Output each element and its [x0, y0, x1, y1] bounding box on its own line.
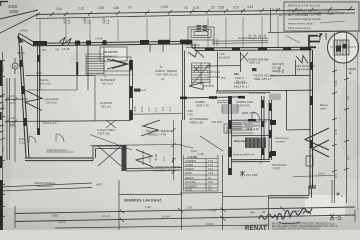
north symbol E	[309, 34, 322, 49]
left edge comb marks	[0, 96, 4, 132]
leader from steps	[186, 40, 200, 48]
room divider y=121	[38, 120, 132, 123]
circled A marker left	[12, 63, 18, 69]
line LA	[0, 183, 92, 187]
line LE	[55, 225, 268, 228]
right outer wall	[310, 47, 313, 188]
entrance dart arrow	[189, 83, 203, 90]
door arc kis lamas	[252, 112, 260, 120]
window blocks top wall right	[205, 47, 311, 51]
vilagito akna label box	[100, 47, 127, 61]
line LB	[119, 194, 181, 196]
stamp text rows	[288, 4, 322, 31]
detail circle	[328, 32, 359, 63]
staircase 1	[86, 47, 131, 75]
door zigzag oltozo	[296, 56, 308, 64]
bottom vertical extension lines	[15, 155, 355, 230]
corner mark top-left of plan	[17, 36, 24, 43]
dark blob wall joint	[102, 40, 107, 45]
line under stamp	[268, 31, 360, 33]
underline terepszint	[46, 151, 74, 153]
top-left corner angled wall	[18, 33, 37, 46]
outside steps top-center nested rects	[188, 27, 214, 40]
second door zigzag center-bottom	[136, 150, 152, 167]
dark hatched terrace	[245, 138, 266, 149]
central vertical line (section)	[181, 120, 183, 197]
top wall right (y~48-50.5)	[192, 47, 312, 50]
line LD	[15, 215, 355, 222]
szarito bottom wall	[231, 159, 270, 161]
wall above WC row	[206, 65, 240, 67]
top dimension line B	[36, 13, 355, 19]
page border right	[357, 32, 359, 210]
dark blocks left of hatch	[270, 120, 276, 125]
small x marks	[106, 120, 116, 128]
big W zigzag left (stairs to cellar)	[25, 90, 42, 111]
vertical number pairs under dim line	[63, 18, 267, 39]
extension lines from dim band to wall	[40, 17, 278, 48]
plus mark right	[336, 192, 340, 196]
dimension numbers top	[56, 5, 345, 17]
small treads 2	[231, 123, 242, 131]
extension at x=270	[270, 8, 272, 32]
window blocks right wall	[310, 62, 313, 148]
rotated dim texts center	[133, 106, 175, 165]
X cross door swing	[98, 146, 121, 166]
inner wall x=262	[262, 96, 265, 160]
staircase 2	[192, 63, 211, 85]
left edge scan border	[0, 60, 3, 230]
staircase 3 small	[222, 105, 238, 113]
dim column center-bottom	[172, 120, 176, 180]
dimension ticks	[36, 7, 352, 17]
window blocks on left wall	[19, 60, 26, 126]
dim rows wc	[217, 101, 231, 103]
center dim line	[90, 145, 182, 146]
corner mark top-left	[0, 1, 8, 6]
top wall left (y~41-44)	[33, 41, 192, 46]
interior walls center	[216, 52, 312, 130]
terrace steps bottom center	[224, 124, 253, 133]
PM stamp blob	[134, 89, 141, 92]
bottom-right step	[268, 186, 316, 198]
door zigzag center-bottom	[141, 120, 160, 136]
signature	[259, 208, 312, 220]
short wall stubs under top wall	[150, 45, 163, 52]
marks below stamp	[320, 33, 326, 40]
small treads furdoszoba	[270, 94, 280, 101]
rows right of steps	[212, 40, 268, 43]
entry door zigzag	[188, 51, 204, 58]
interior small texts (room labels)	[9, 37, 328, 173]
right dimension columns	[332, 33, 349, 203]
door X furdoszoba	[240, 53, 248, 62]
inner-right wall x=270	[269, 100, 272, 160]
bottom-left step walls	[93, 146, 182, 171]
thick wall pier	[122, 145, 127, 171]
hatched block in circle	[330, 40, 356, 55]
bottom-left wall	[25, 158, 93, 161]
left dimension column	[0, 52, 60, 230]
interior wall verticals left block	[40, 44, 88, 91]
small rect below chevrons	[306, 156, 313, 166]
thick center-left wall	[130, 60, 133, 120]
chevrons right (outside steps)	[305, 128, 329, 150]
bottom ticks	[120, 207, 334, 223]
step in top wall	[192, 41, 195, 50]
legend table bottom-center	[184, 155, 219, 191]
lepcsohaz west wall	[38, 42, 40, 135]
dim line mid	[131, 113, 182, 116]
vent hatched squares	[197, 25, 208, 32]
line LC	[15, 207, 355, 214]
leader bottom right area	[293, 176, 335, 177]
interior walls kis lamas room	[231, 120, 272, 136]
line under legend stepped	[180, 192, 223, 194]
diagonal leaders center	[90, 135, 132, 151]
small x cross on stair2	[194, 67, 199, 73]
stamp box top right	[284, 2, 359, 31]
bottom numbers	[52, 183, 300, 227]
fine print paragraph	[272, 222, 338, 230]
top dimension line A	[36, 10, 355, 15]
room divider x=95	[94, 76, 96, 122]
thick central wall x=230	[229, 96, 232, 175]
top-left leader arrow	[0, 10, 38, 33]
interior divider left	[26, 75, 95, 77]
door zigzag top-left	[59, 38, 71, 46]
left outer wall (slanted)	[19, 34, 30, 158]
door arcs bottom-left	[29, 136, 36, 143]
wall with rooms top center: row y=97.5	[180, 97, 245, 98]
window blocks top wall left	[33, 40, 192, 46]
interior wall right of room 8	[183, 44, 185, 120]
